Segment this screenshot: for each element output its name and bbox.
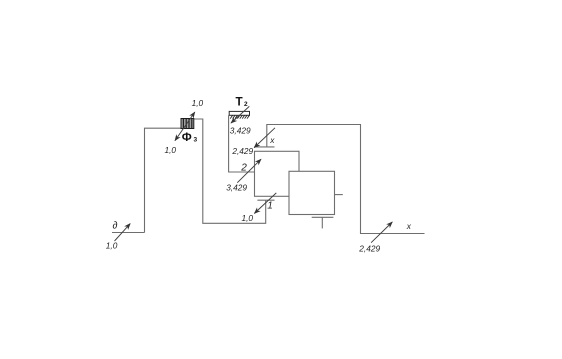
svg-text:3: 3 xyxy=(194,137,198,144)
wire: from block top right to down-step xyxy=(194,119,266,223)
svg-text:T: T xyxy=(236,96,244,109)
arrow F3 double xyxy=(175,112,195,141)
element F3: hatched block xyxy=(181,119,194,129)
svg-text:2,429: 2,429 xyxy=(358,244,380,254)
svg-text:1,0: 1,0 xyxy=(242,213,254,223)
svg-text:3,429: 3,429 xyxy=(230,125,251,135)
junction dash above back box xyxy=(254,146,274,148)
svg-text:2,429: 2,429 xyxy=(231,146,253,156)
svg-text:1,0: 1,0 xyxy=(106,241,118,251)
junction dash under back box xyxy=(257,199,274,201)
svg-text:2: 2 xyxy=(240,163,247,174)
front box xyxy=(289,171,335,214)
svg-text:x: x xyxy=(406,221,412,231)
arrow x top xyxy=(254,128,275,148)
front box ground stem xyxy=(321,217,323,228)
arrow d input xyxy=(115,224,131,241)
svg-text:1: 1 xyxy=(267,200,273,211)
front box right tick xyxy=(335,194,343,196)
wire: baseline left horizontal xyxy=(112,232,145,234)
front box ground dash xyxy=(312,216,334,218)
wire: left vertical riser xyxy=(145,128,182,232)
svg-text:2: 2 xyxy=(244,101,248,108)
svg-text:∂: ∂ xyxy=(113,221,118,232)
back box xyxy=(255,151,300,196)
svg-text:3,429: 3,429 xyxy=(226,183,247,193)
arrow 2 / 3,429 xyxy=(237,159,261,183)
element T2: support bar with hatching xyxy=(229,111,249,118)
svg-text:x: x xyxy=(269,135,275,145)
arrow 1 xyxy=(254,193,276,214)
wire: top long horizontal with right drop xyxy=(267,125,425,234)
arrow x bottom xyxy=(371,222,392,243)
svg-text:1,0: 1,0 xyxy=(192,98,204,108)
svg-text:1,0: 1,0 xyxy=(165,145,177,155)
svg-text:Ф: Ф xyxy=(182,131,192,144)
arrow T2 xyxy=(231,106,249,123)
wire: T2 left vertical down to box row xyxy=(229,115,255,172)
